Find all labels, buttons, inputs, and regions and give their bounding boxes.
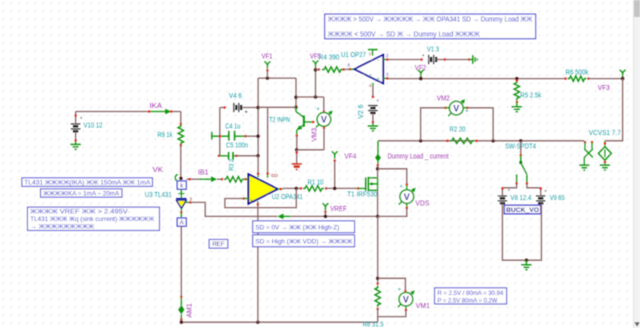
resistor R4 <box>318 68 320 70</box>
svg-text:R2 20: R2 20 <box>450 126 466 133</box>
wire IKA top from V10 to R9 <box>76 111 150 113</box>
svg-text:VM1: VM1 <box>416 303 430 310</box>
svg-text:R5 2.5k: R5 2.5k <box>520 92 541 99</box>
current arrow Dummy Load (down) <box>377 141 379 165</box>
wire R1 to T1 gate <box>326 187 358 189</box>
svg-text:V1 3: V1 3 <box>427 47 439 54</box>
ground right of V1 <box>469 59 473 61</box>
wire VM3 top to VF5 node <box>323 97 325 112</box>
svg-text:VF1: VF1 <box>262 54 273 61</box>
svg-text:VM3: VM3 <box>311 128 318 142</box>
svg-text:V9 65: V9 65 <box>550 195 565 202</box>
svg-text:6: 6 <box>348 63 351 68</box>
capacitor C5 <box>218 155 220 157</box>
voltage pin VF2 <box>418 70 424 77</box>
scrollbar down arrow <box>634 322 639 326</box>
svg-text:REF: REF <box>212 241 225 248</box>
svg-text:V8 12.4: V8 12.4 <box>510 195 531 202</box>
ground under V10 <box>75 141 77 144</box>
wire REF rail to VREF junction <box>291 215 378 217</box>
svg-text:+: + <box>245 110 248 116</box>
svg-text:V2 6: V2 6 <box>358 105 365 119</box>
svg-text:VDS: VDS <box>415 201 429 208</box>
svg-text:P = 2.5V 80mA = 0.2W: P = 2.5V 80mA = 0.2W <box>437 297 498 304</box>
svg-text:ЖЖЖЖ > 500V → ЖЖЖЖЖ → ЖЖ OPA34: ЖЖЖЖ > 500V → ЖЖЖЖЖ → ЖЖ OPA341 SD → Dum… <box>328 17 533 24</box>
ground under R5 <box>516 102 518 107</box>
wire VF1 horizontal <box>258 77 296 79</box>
voltage source V2 <box>368 105 378 107</box>
svg-text:R1 10: R1 10 <box>308 179 324 186</box>
voltmeter VM2 <box>446 107 450 109</box>
voltage pin VREF <box>322 203 328 210</box>
svg-text:VF3: VF3 <box>598 85 610 92</box>
svg-text:SW-SPDT4: SW-SPDT4 <box>505 143 536 150</box>
svg-text:VF2: VF2 <box>415 65 427 72</box>
wire R8 bottom to rail <box>377 309 379 322</box>
svg-text:IKA: IKA <box>150 103 163 110</box>
svg-text:VREF: VREF <box>330 206 347 213</box>
svg-text:SD = High (ЖЖ VDD) → ЖЖЖЖ: SD = High (ЖЖ VDD) → ЖЖЖЖ <box>255 239 353 246</box>
svg-text:AM1: AM1 <box>187 303 194 317</box>
wire VDS loop top <box>378 169 407 185</box>
U1 V+ power bar <box>372 50 374 56</box>
voltmeter VM1 <box>398 292 413 307</box>
resistor R9 <box>180 112 182 125</box>
wire switch right contact to V9 <box>527 183 541 195</box>
ground under VCVS output <box>600 164 610 166</box>
wire T2 emitter down <box>296 136 298 150</box>
svg-text:VM2: VM2 <box>437 96 450 103</box>
op-amp U2 OPA341 <box>248 174 277 204</box>
wire A of U3 down to AM1 <box>180 226 182 296</box>
note box IKA design range <box>41 189 122 197</box>
U1 V- power lead <box>372 83 374 87</box>
svg-text:VF4: VF4 <box>344 153 356 160</box>
wire V4 to T2 collector <box>258 106 296 108</box>
voltage source V4 <box>233 103 235 112</box>
wire V1 to right ground <box>436 59 469 61</box>
wire R6 to VF3 corner <box>588 78 622 80</box>
wire VDS bottom to rail <box>378 208 407 216</box>
pin box k of U3 <box>177 181 186 189</box>
op-amp U1 OP27 <box>354 55 383 84</box>
macro pin hook at k <box>175 175 178 182</box>
svg-text:+: + <box>400 184 403 190</box>
voltmeter VM2 loop wires <box>421 108 446 141</box>
ground under VCVS input <box>583 157 585 165</box>
svg-text:VCVS1 7.7: VCVS1 7.7 <box>589 130 621 137</box>
voltage source V10 <box>75 112 77 124</box>
ground (red) under T2 <box>296 150 298 164</box>
wire V8 V9 bottom loop <box>502 203 541 260</box>
wire U1 pin2 to V1 <box>389 59 422 61</box>
wire switch left contact to V8 <box>502 183 516 195</box>
voltage source V8 <box>498 195 507 197</box>
resistor R8 <box>377 283 379 285</box>
wire T1 drain up <box>377 165 379 178</box>
scrollbar track <box>634 0 640 328</box>
svg-text:+: + <box>422 53 425 58</box>
svg-text:ЖЖЖЖ VREF ЖЖ > 2.495V·: ЖЖЖЖ VREF ЖЖ > 2.495V· <box>30 208 130 215</box>
U2 SD pin <box>267 173 269 178</box>
resistor R3 <box>221 178 223 180</box>
svg-text:+: + <box>508 188 511 193</box>
svg-text:+: + <box>398 287 401 293</box>
wire U1 pin3 bus to R6 <box>389 78 566 80</box>
svg-text:TL431 ЖЖЖ Жq (sink current)·Ж: TL431 ЖЖЖ Жq (sink current)·ЖЖЖЖЖЖ <box>30 216 155 223</box>
svg-text:U1 OP27: U1 OP27 <box>341 52 366 59</box>
node label BUCK_VO <box>504 205 540 214</box>
resistor R1 <box>300 187 302 189</box>
svg-text:T1 IRF530: T1 IRF530 <box>347 192 377 199</box>
wire V4/C4/C5 right vertical node <box>257 78 259 156</box>
wire REF of TL431 to rail <box>190 202 277 216</box>
svg-text:SD: SD <box>271 173 278 178</box>
wire T2 collector vertical <box>295 78 297 107</box>
svg-text:IB1: IB1 <box>198 170 209 177</box>
bottom rail wire <box>180 319 182 323</box>
voltmeter VDS <box>406 185 408 190</box>
ground under battery loop <box>525 260 527 264</box>
wire R9 to node k <box>180 145 182 177</box>
svg-text:V: V <box>453 103 459 113</box>
wire VF4 down to gate node <box>334 161 336 189</box>
resistor R5 <box>515 77 518 80</box>
wire emitter node to VM3 bottom <box>297 149 324 151</box>
svg-text:→ ЖЖЖЖЖЖЖЖЖ: → ЖЖЖЖЖЖЖЖЖ <box>30 223 95 230</box>
transistor T1 IRF530 <box>358 187 366 189</box>
svg-text:V10 12: V10 12 <box>84 123 103 130</box>
U2 V- pin down <box>257 201 259 206</box>
svg-text:R9 1k: R9 1k <box>158 132 173 139</box>
U1 pin 3 lead <box>383 77 388 79</box>
svg-text:V4 6: V4 6 <box>229 93 242 100</box>
svg-text:R6 500k: R6 500k <box>566 70 589 77</box>
svg-text:VK: VK <box>153 167 164 174</box>
svg-text:+: + <box>376 77 380 83</box>
scrollbar thumb <box>634 0 640 17</box>
svg-text:R8 31.5: R8 31.5 <box>363 322 384 328</box>
svg-text:+: + <box>250 198 253 203</box>
wire U1 to V2 battery <box>372 86 374 97</box>
resistor R2 <box>446 140 448 142</box>
wire VF3 down to VCVS output <box>605 79 623 141</box>
svg-text:R4 390: R4 390 <box>319 54 340 61</box>
svg-text:V: V <box>404 192 410 202</box>
wire R4 to U1 output <box>344 68 351 70</box>
voltmeter VM3 <box>323 127 325 150</box>
svg-text:+: + <box>80 115 83 120</box>
wire U2 minus input lead <box>246 178 249 180</box>
resistor R6 <box>565 78 567 80</box>
U1 pin 2 lead <box>383 59 388 61</box>
node k junction <box>179 177 182 180</box>
svg-text:T2 !NPN: T2 !NPN <box>269 117 290 124</box>
switch SW-SPDT4 <box>520 141 522 156</box>
current arrow on REF rail (left) <box>283 215 291 217</box>
svg-text:C5 100n: C5 100n <box>226 142 248 149</box>
wire VF5 node horizontal <box>296 96 324 98</box>
svg-text:3: 3 <box>386 72 389 77</box>
voltmeter VM1 loop <box>378 278 406 291</box>
ammeter AM1 (arrow) <box>180 296 182 298</box>
voltage pin VF5 <box>313 61 319 68</box>
shunt regulator U3 TL431 <box>180 189 182 198</box>
pin box REF label <box>209 240 228 249</box>
U2 output lead <box>278 188 283 190</box>
voltage pin VF3 <box>620 70 626 77</box>
current arrow IKA <box>149 111 166 113</box>
svg-text:V: V <box>321 115 327 125</box>
svg-text:U3 TL431: U3 TL431 <box>145 192 172 199</box>
ground under V2 <box>372 123 374 126</box>
note box R/P calculation <box>435 288 507 304</box>
svg-text:V: V <box>403 294 409 304</box>
svg-text:U2 OPA341: U2 OPA341 <box>272 194 303 201</box>
wire IB1 from k to R3 <box>187 178 200 180</box>
wire SD net vertical <box>267 107 269 173</box>
svg-text:Dummy Load _ current: Dummy Load _ current <box>388 153 449 160</box>
voltage pin VF4 <box>332 151 338 158</box>
wire dummy load bus <box>378 140 584 142</box>
svg-text:+: + <box>316 106 319 112</box>
svg-text:+: + <box>376 98 379 103</box>
svg-text:BUCK_VO: BUCK_VO <box>506 207 539 214</box>
U2 V+ pin from C5 node <box>257 156 259 173</box>
svg-text:C4 1u: C4 1u <box>225 123 240 130</box>
U2 feedback wire to + input <box>225 188 296 207</box>
note box TL431 drive current <box>22 178 153 186</box>
wire U2 output to R1 <box>283 187 301 189</box>
pin box A of U3 <box>177 218 186 226</box>
svg-text:+: + <box>544 188 547 193</box>
wire T1 source down to rail <box>377 190 379 216</box>
svg-text:2: 2 <box>386 53 389 58</box>
note box SD=0V <box>253 221 355 233</box>
note box top-right (output comparator) <box>325 14 536 39</box>
svg-text:+: + <box>465 108 468 114</box>
capacitor C4 <box>211 132 213 140</box>
wire V4 left branch <box>220 107 225 109</box>
current arrow IB1 <box>199 178 212 180</box>
transistor T2 !NPN <box>295 107 297 111</box>
VCVS output diamond <box>598 147 611 161</box>
svg-text:TL431 ЖЖЖЖ(IKA) ЖЖ 150mA ЖЖ 1m: TL431 ЖЖЖЖ(IKA) ЖЖ 150mA ЖЖ 1mA <box>24 180 150 187</box>
note box VREF warning <box>28 207 160 230</box>
voltage source V1 <box>428 55 430 64</box>
svg-text:SD = 0V → ЖЖ (ЖЖ High-Z): SD = 0V → ЖЖ (ЖЖ High-Z) <box>255 225 339 232</box>
svg-text:ЖЖЖЖIKA = 1mA ~ 20mA: ЖЖЖЖIKA = 1mA ~ 20mA <box>43 191 119 198</box>
wire VF5 to R4 node <box>315 70 317 97</box>
voltage pin VF1 <box>264 61 270 68</box>
wire source rail down to R8 <box>377 216 379 283</box>
svg-text:R = 2.5V / 80mA = 30.94: R = 2.5V / 80mA = 30.94 <box>437 290 503 297</box>
voltage source V9 <box>536 195 545 197</box>
note box SD=High <box>253 235 355 247</box>
svg-text:+: + <box>369 72 372 77</box>
svg-text:ЖЖЖЖ < 500V → SD Ж → Dummy Loa: ЖЖЖЖ < 500V → SD Ж → Dummy Load ЖЖЖЖ <box>328 31 480 38</box>
svg-text:R3 2: R3 2 <box>229 159 236 171</box>
